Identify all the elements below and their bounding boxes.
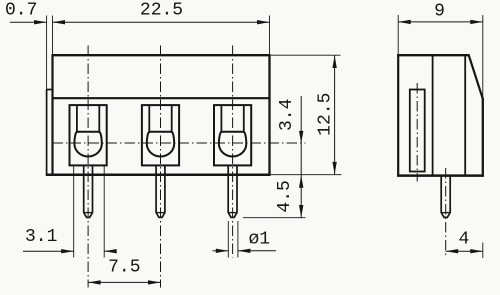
svg-text:ø1: ø1 xyxy=(248,229,270,249)
svg-text:4.5: 4.5 xyxy=(275,180,295,212)
svg-text:3.4: 3.4 xyxy=(277,99,297,131)
svg-text:0.7: 0.7 xyxy=(5,0,37,20)
svg-text:3.1: 3.1 xyxy=(25,227,57,247)
svg-text:9: 9 xyxy=(434,1,445,21)
svg-text:12.5: 12.5 xyxy=(315,93,335,136)
svg-text:7.5: 7.5 xyxy=(108,257,140,277)
svg-text:22.5: 22.5 xyxy=(140,1,183,21)
svg-text:4: 4 xyxy=(458,230,469,250)
